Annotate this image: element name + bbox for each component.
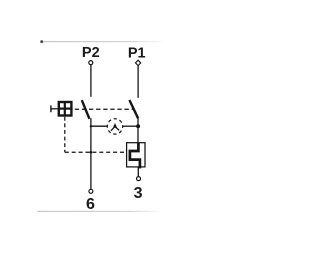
- svg-text:6: 6: [86, 196, 95, 213]
- svg-text:P2: P2: [82, 45, 100, 61]
- svg-text:P1: P1: [128, 45, 146, 61]
- svg-text:3: 3: [134, 185, 143, 202]
